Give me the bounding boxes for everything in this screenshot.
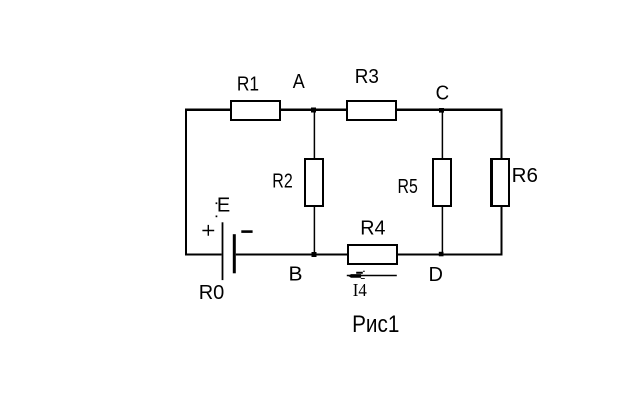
resistor R1 body	[231, 101, 280, 120]
svg-text:A: A	[293, 71, 305, 93]
resistor R4 body	[348, 245, 397, 264]
svg-text:E: E	[217, 195, 230, 217]
svg-text:R1: R1	[237, 72, 259, 94]
current I4 arrowhead pointing left	[348, 271, 365, 279]
battery polarity minus sign	[241, 230, 252, 233]
current I4 arrow shaft under R4	[347, 275, 397, 277]
wire: R5 bottom lead down to node D	[441, 206, 443, 255]
wire: right vertical lower segment (R6 bottom down to bottom-right corner)	[501, 206, 503, 256]
svg-text:R0: R0	[199, 282, 225, 304]
node B junction dot	[312, 252, 317, 257]
stray dot above-left of E label	[216, 202, 218, 204]
resistor R6 body	[491, 159, 509, 206]
wire: bottom-left segment from left corner to battery positive plate	[185, 254, 222, 256]
svg-text:R5: R5	[398, 175, 418, 197]
wire: left vertical side	[185, 109, 187, 256]
wire: node A down to R2 top lead	[313, 110, 315, 159]
resistor R5 body	[433, 159, 451, 206]
svg-text:B: B	[289, 263, 303, 285]
svg-text:R4: R4	[360, 217, 385, 239]
svg-text:R2: R2	[272, 170, 292, 192]
node C junction dot	[439, 108, 444, 113]
battery polarity plus sign	[202, 225, 214, 236]
battery E negative plate (short thick)	[233, 234, 236, 273]
svg-text:R6: R6	[512, 165, 538, 187]
wire: bottom segment from battery negative plate through node B to R4 left lead	[236, 254, 348, 256]
wire: top horizontal from left corner through node A and node C to top-right corner	[185, 108, 502, 111]
wire: node C down to R5 top lead	[441, 110, 443, 159]
svg-text:R3: R3	[355, 65, 379, 88]
resistor R6 thick left edge	[490, 158, 493, 207]
node D junction dot	[439, 252, 444, 256]
node A junction dot	[311, 108, 316, 113]
battery E positive plate (long thin)	[222, 222, 224, 280]
svg-text:Рис1: Рис1	[352, 311, 399, 338]
wire: bottom segment from R4 right lead through node D to bottom-right corner	[397, 254, 502, 256]
stray dot below-left of E label	[216, 216, 218, 218]
svg-text:C: C	[436, 82, 450, 105]
wire: right vertical upper segment (top-right corner down to R6 top)	[501, 109, 503, 160]
wire: R2 bottom lead down to node B	[313, 206, 315, 255]
resistor R3 body	[347, 101, 396, 120]
resistor R2 body	[305, 159, 323, 206]
svg-text:D: D	[429, 264, 443, 286]
svg-text:I4: I4	[353, 280, 367, 301]
